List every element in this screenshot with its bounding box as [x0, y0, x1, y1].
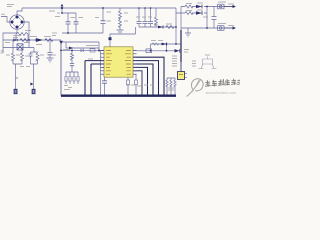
svg-text:www.elecfans.com: www.elecfans.com — [206, 91, 237, 95]
